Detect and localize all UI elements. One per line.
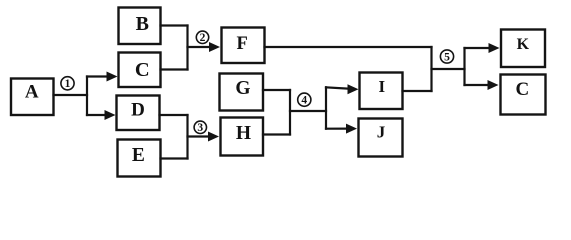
node 5 circled <box>440 50 453 63</box>
node 2 circled <box>196 31 208 43</box>
box J <box>359 119 403 157</box>
svg-text:K: K <box>517 36 530 53</box>
svg-text:2: 2 <box>200 32 206 44</box>
svg-text:B: B <box>136 13 149 35</box>
arrowhead into C2 <box>488 80 499 90</box>
box G <box>220 74 264 111</box>
svg-text:C: C <box>516 79 530 100</box>
arrowhead into F <box>209 42 220 52</box>
svg-text:5: 5 <box>444 51 450 63</box>
wire E out <box>161 157 188 159</box>
wire GH vertical <box>289 90 291 135</box>
wire branch to C <box>87 75 110 77</box>
svg-text:1: 1 <box>65 78 71 90</box>
wire C out <box>161 68 188 70</box>
wire BC vertical <box>186 26 188 70</box>
svg-text:4: 4 <box>301 95 307 107</box>
wire tap to split4 <box>290 110 326 112</box>
wire F out long <box>265 46 432 48</box>
arrowhead into C <box>107 72 118 82</box>
wire right vertical <box>430 47 432 91</box>
svg-text:G: G <box>235 78 250 99</box>
svg-text:H: H <box>236 123 251 144</box>
arrowhead into D <box>105 110 116 120</box>
node 3 circled <box>194 121 206 133</box>
box F <box>222 28 265 64</box>
box E <box>118 140 161 177</box>
box C <box>119 53 161 88</box>
svg-text:J: J <box>377 122 386 141</box>
node 4 circled <box>298 93 311 106</box>
wire to I <box>326 87 351 89</box>
wire to K <box>465 47 492 49</box>
wire G out <box>263 89 290 91</box>
wire split4 vertical <box>325 87 327 128</box>
wire I out <box>403 90 432 92</box>
node 1 circled <box>61 77 74 90</box>
wire to J <box>326 128 350 130</box>
box D <box>117 96 160 131</box>
box B <box>119 8 161 45</box>
arrowhead into H <box>208 132 219 142</box>
wire D out <box>160 114 188 116</box>
box I <box>360 73 403 110</box>
box A <box>11 79 54 116</box>
wire DE vertical <box>186 115 188 159</box>
svg-text:I: I <box>378 77 385 96</box>
arrowhead into K <box>489 43 500 53</box>
svg-text:D: D <box>131 99 145 120</box>
svg-text:E: E <box>132 145 145 166</box>
wire B out <box>161 24 188 26</box>
box C2 <box>501 75 546 115</box>
wire 2 to F <box>188 46 213 48</box>
wire branch vertical <box>86 77 88 116</box>
svg-text:C: C <box>135 59 150 81</box>
wire A to branch <box>54 94 88 96</box>
wire 3 to H <box>188 135 212 137</box>
arrowhead into J <box>346 124 357 134</box>
wire split5 vertical <box>463 48 465 85</box>
wire to C2 <box>465 84 491 86</box>
svg-text:A: A <box>25 82 39 103</box>
box K <box>501 30 545 68</box>
wire branch to D <box>87 114 108 116</box>
wire H out <box>263 133 290 135</box>
box H <box>221 118 264 156</box>
arrowhead into I <box>348 84 359 94</box>
wire tap to split5 <box>432 68 465 70</box>
svg-text:F: F <box>237 34 248 54</box>
svg-text:3: 3 <box>197 122 203 134</box>
